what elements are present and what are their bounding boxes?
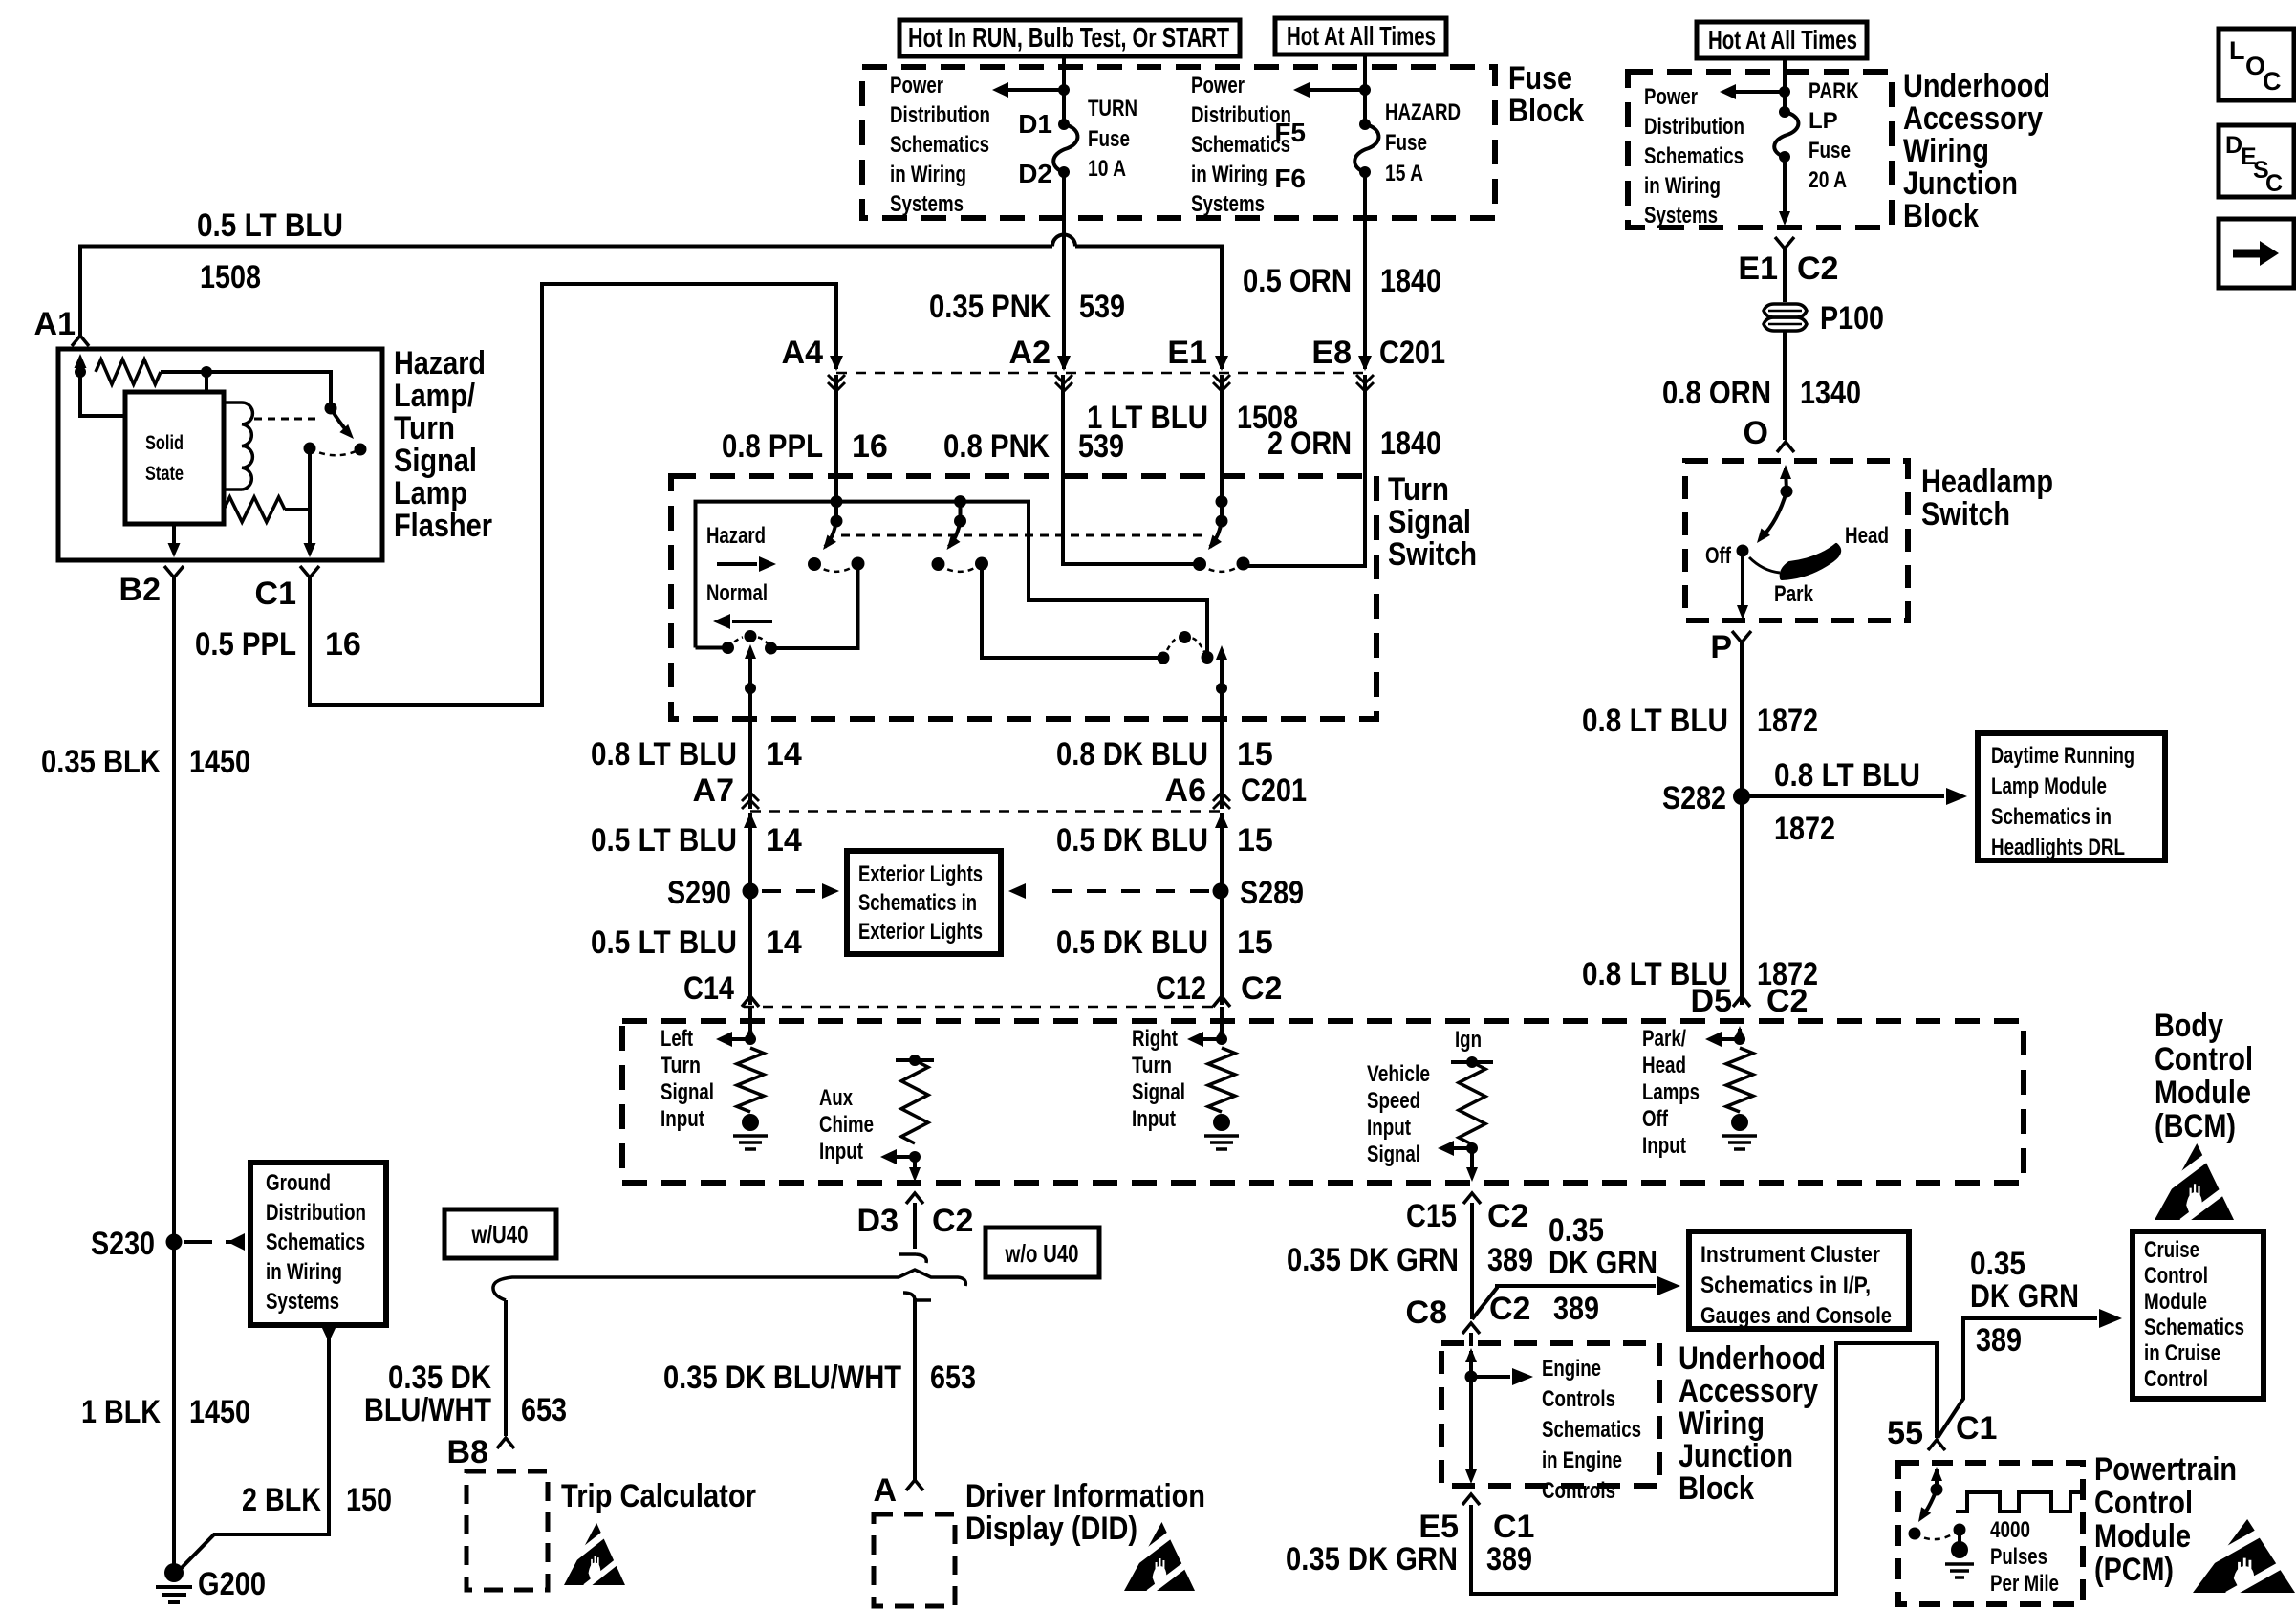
- svg-text:Control: Control: [2144, 1366, 2208, 1392]
- svg-text:S282: S282: [1662, 780, 1726, 816]
- splice option hook lower: [903, 1293, 931, 1300]
- vsis left arrow: [1438, 1141, 1472, 1156]
- wire C12 into BCM: [1220, 1007, 1224, 1037]
- branch to cruise: [1938, 1318, 2097, 1438]
- svg-text:1 LT BLU: 1 LT BLU: [1087, 400, 1208, 436]
- svg-text:0.5 DK BLU: 0.5 DK BLU: [1056, 925, 1208, 961]
- cruise box: [2133, 1231, 2264, 1399]
- svg-text:0.5 LT BLU: 0.5 LT BLU: [197, 207, 343, 244]
- svg-text:1450: 1450: [189, 744, 250, 780]
- svg-text:P: P: [1710, 629, 1732, 665]
- wire A4 to switch rail: [834, 375, 838, 502]
- svg-text:1840: 1840: [1380, 263, 1441, 299]
- svg-text:Hot At All Times: Hot At All Times: [1708, 25, 1857, 54]
- svg-text:Turn: Turn: [661, 1053, 701, 1078]
- svg-text:Controls: Controls: [1542, 1478, 1615, 1504]
- w/U40 box: [444, 1209, 556, 1258]
- turn signal switch dashed box: [671, 476, 1376, 719]
- switch pole 3 (hazard right): [1193, 495, 1250, 572]
- svg-text:LP: LP: [1809, 108, 1838, 134]
- wire to solid state left: [80, 372, 125, 416]
- svg-text:Schematics: Schematics: [1644, 143, 1744, 169]
- svg-text:539: 539: [1079, 289, 1125, 325]
- svg-text:E5: E5: [1419, 1509, 1459, 1545]
- svg-text:w/U40: w/U40: [471, 1220, 529, 1249]
- banner Hot At All Times box (fuse block): [1275, 18, 1446, 54]
- flasher coil: [224, 402, 242, 490]
- wire 2 BLK 150: [174, 1326, 336, 1576]
- flasher junction mid: [201, 366, 212, 378]
- svg-text:16: 16: [325, 626, 361, 663]
- banner Hot At All Times box (junction block): [1697, 22, 1867, 58]
- svg-text:Chime: Chime: [819, 1112, 874, 1138]
- svg-text:C2: C2: [1489, 1291, 1530, 1327]
- svg-text:D1: D1: [1018, 109, 1052, 139]
- svg-text:Schematics: Schematics: [266, 1229, 365, 1255]
- vsis down arrow: [1466, 1148, 1478, 1182]
- svg-text:Distribution: Distribution: [1644, 114, 1744, 140]
- splice S290: [743, 883, 759, 900]
- branch to instrument cluster: [1472, 1276, 1680, 1319]
- wire flasher C1 branch lower: [304, 510, 316, 557]
- svg-text:Head: Head: [1845, 523, 1889, 549]
- junction on A6 wire: [1216, 683, 1227, 694]
- svg-text:2 ORN: 2 ORN: [1267, 425, 1352, 462]
- svg-text:0.8 LT BLU: 0.8 LT BLU: [1582, 703, 1728, 739]
- ground park head: [1722, 1114, 1757, 1149]
- svg-text:1 BLK: 1 BLK: [81, 1394, 161, 1430]
- svg-text:Module: Module: [2144, 1289, 2207, 1315]
- wire 0.35 DK BLU/WHT 653 to Trip: [504, 1300, 508, 1436]
- right turn input resistor: [1208, 1048, 1235, 1112]
- svg-text:0.5 LT BLU: 0.5 LT BLU: [591, 822, 737, 859]
- svg-text:0.35 PNK: 0.35 PNK: [929, 289, 1051, 325]
- svg-text:Fuse: Fuse: [1088, 126, 1130, 152]
- svg-text:1872: 1872: [1757, 703, 1818, 739]
- fuse block dashed box: [862, 67, 1495, 218]
- connector 55/C1: [1928, 1440, 1945, 1450]
- svg-text:Accessory: Accessory: [1903, 100, 2043, 137]
- svg-text:G200: G200: [198, 1566, 266, 1602]
- svg-text:B2: B2: [119, 572, 161, 608]
- right turn input arrow: [1216, 1026, 1227, 1040]
- UAWJB2 dashed box: [1441, 1343, 1659, 1486]
- park head junction: [1734, 1033, 1745, 1045]
- svg-text:0.8 DK BLU: 0.8 DK BLU: [1056, 736, 1208, 772]
- wire 0.35 BLK / 1 BLK 1450: [172, 577, 176, 1576]
- wire 2 ORN to switch3 right contact: [1243, 375, 1365, 566]
- svg-text:0.5 ORN: 0.5 ORN: [1243, 263, 1352, 299]
- ground left turn: [733, 1114, 768, 1149]
- svg-text:Hazard: Hazard: [394, 345, 486, 381]
- connector A7: [742, 793, 759, 828]
- svg-text:DK GRN: DK GRN: [1549, 1245, 1657, 1281]
- svg-text:C14: C14: [683, 970, 734, 1007]
- arrow to power distribution: [992, 82, 1064, 98]
- splice S230: [166, 1234, 183, 1251]
- svg-text:Control: Control: [2094, 1485, 2193, 1521]
- svg-text:in Wiring: in Wiring: [1644, 173, 1721, 199]
- wire hot to junction block: [1783, 58, 1787, 72]
- svg-text:Distribution: Distribution: [266, 1200, 366, 1226]
- svg-text:Lamps: Lamps: [1642, 1079, 1700, 1105]
- ground right turn: [1204, 1114, 1239, 1149]
- wire switch2 right contact to right common: [982, 564, 1163, 659]
- svg-text:in Cruise: in Cruise: [2144, 1340, 2220, 1366]
- svg-text:D3: D3: [857, 1203, 899, 1239]
- svg-text:Exterior Lights: Exterior Lights: [858, 861, 983, 887]
- svg-text:Gauges and Console: Gauges and Console: [1700, 1303, 1892, 1329]
- svg-text:C: C: [2263, 67, 2282, 96]
- svg-text:C201: C201: [1241, 772, 1307, 809]
- fuse HAZARD 15A: [1354, 119, 1378, 178]
- wire Off to P: [1737, 551, 1748, 620]
- svg-text:Daytime Running: Daytime Running: [1991, 743, 2134, 769]
- BCM dashed box: [622, 1021, 2024, 1183]
- wire flasher C1 branch upper: [308, 448, 312, 510]
- wire hop over TURN wire: [1052, 235, 1075, 247]
- svg-text:10 A: 10 A: [1088, 156, 1126, 182]
- svg-text:15: 15: [1237, 925, 1273, 961]
- pcm switch arm: [1918, 1490, 1937, 1522]
- flasher dashed link: [254, 418, 321, 421]
- svg-text:Head: Head: [1642, 1053, 1686, 1078]
- svg-text:S289: S289: [1240, 875, 1304, 911]
- svg-text:Signal: Signal: [394, 443, 477, 479]
- left common right contact: [765, 642, 777, 655]
- svg-text:Signal: Signal: [1367, 1142, 1420, 1167]
- svg-text:Input: Input: [1367, 1115, 1411, 1141]
- svg-text:15: 15: [1237, 822, 1273, 859]
- svg-text:Accessory: Accessory: [1679, 1373, 1818, 1409]
- svg-text:Solid: Solid: [145, 432, 184, 454]
- svg-text:C2: C2: [932, 1203, 973, 1239]
- svg-text:E1: E1: [1738, 250, 1778, 287]
- aux chime down arrow: [909, 1157, 921, 1182]
- wire 0.5 PPL 16 routing: [310, 284, 836, 705]
- wire C8 to junction block 2: [1469, 1333, 1473, 1346]
- headlamp switch dashed box: [1685, 461, 1908, 620]
- svg-text:Power: Power: [890, 73, 943, 98]
- svg-text:Schematics in: Schematics in: [1991, 804, 2112, 830]
- svg-text:Fuse: Fuse: [1385, 130, 1427, 156]
- svg-text:in Engine: in Engine: [1542, 1447, 1622, 1473]
- svg-text:389: 389: [1553, 1291, 1599, 1327]
- wire 0.5 ORN 1840: [1363, 172, 1367, 369]
- aux chime resistor: [901, 1060, 928, 1143]
- vsis junction bottom: [1466, 1142, 1478, 1154]
- flasher resistor R2: [224, 497, 285, 522]
- connector E8: [1356, 356, 1374, 391]
- svg-text:C1: C1: [1493, 1509, 1534, 1545]
- svg-text:Headlamp: Headlamp: [1921, 464, 2053, 500]
- svg-text:Instrument Cluster: Instrument Cluster: [1700, 1242, 1880, 1268]
- svg-text:14: 14: [766, 925, 802, 961]
- connector C12: [1213, 996, 1230, 1007]
- svg-text:Schematics: Schematics: [2144, 1315, 2244, 1340]
- square wave symbol: [1956, 1492, 2082, 1512]
- svg-text:Input: Input: [1132, 1106, 1176, 1132]
- wire inside junction block: [1783, 72, 1787, 112]
- headlamp switch arm: [1780, 465, 1791, 491]
- svg-text:Flasher: Flasher: [394, 508, 492, 544]
- svg-text:Speed: Speed: [1367, 1088, 1420, 1114]
- wire D3 down: [913, 1203, 917, 1249]
- svg-text:4000: 4000: [1990, 1517, 2030, 1543]
- pcm ground stub: [1958, 1530, 1961, 1543]
- splice option hook upper: [899, 1254, 926, 1263]
- svg-text:Signal: Signal: [1132, 1079, 1185, 1105]
- svg-text:Turn: Turn: [1132, 1053, 1172, 1078]
- wire TURN fuse to hop: [1062, 172, 1066, 241]
- svg-text:Driver Information: Driver Information: [965, 1478, 1205, 1514]
- connector A1: [72, 336, 89, 346]
- wire to P100: [1783, 249, 1787, 302]
- svg-text:Junction: Junction: [1903, 165, 2018, 202]
- svg-text:F6: F6: [1274, 163, 1306, 193]
- svg-text:Controls: Controls: [1542, 1386, 1615, 1412]
- splice S289: [1213, 883, 1229, 900]
- svg-text:TURN: TURN: [1088, 96, 1137, 121]
- connector E5: [1462, 1494, 1480, 1505]
- right turn junction: [1216, 1033, 1227, 1045]
- svg-text:O: O: [1744, 415, 1768, 451]
- svg-text:Turn: Turn: [1388, 471, 1449, 508]
- svg-text:15: 15: [1237, 736, 1273, 772]
- svg-text:F5: F5: [1274, 118, 1306, 147]
- connector B8: [497, 1438, 514, 1448]
- connector line C201: [836, 372, 1369, 375]
- svg-text:1840: 1840: [1380, 425, 1441, 462]
- svg-text:Off: Off: [1642, 1106, 1669, 1132]
- svg-text:Fuse: Fuse: [1809, 138, 1851, 163]
- connector A6: [1213, 793, 1230, 828]
- svg-text:Lamp: Lamp: [394, 475, 467, 511]
- switch common rail: [696, 502, 1208, 658]
- svg-text:D5: D5: [1691, 983, 1732, 1019]
- fuse TURN 10A: [1053, 119, 1077, 178]
- svg-text:Wiring: Wiring: [1903, 133, 1989, 169]
- park head resistor: [1726, 1048, 1753, 1112]
- left turn input arrow: [745, 1026, 756, 1040]
- right common left contact: [1158, 652, 1170, 664]
- svg-text:389: 389: [1976, 1322, 2022, 1359]
- trip calculator dashed box: [466, 1471, 548, 1590]
- svg-text:20 A: 20 A: [1809, 167, 1847, 193]
- svg-text:653: 653: [521, 1392, 567, 1428]
- svg-text:Engine: Engine: [1542, 1356, 1601, 1382]
- headlamp switch Off contact: [1737, 545, 1749, 557]
- left common apex: [745, 630, 757, 642]
- vsis tbar: [1451, 1060, 1493, 1064]
- connector E1/C2: [1775, 237, 1794, 249]
- splice S282: [1733, 788, 1750, 805]
- ground G200: [156, 1563, 192, 1602]
- right common apex: [1179, 631, 1191, 643]
- PCM dashed box: [1898, 1463, 2083, 1604]
- svg-text:Signal: Signal: [661, 1079, 714, 1105]
- svg-text:Hot At All Times: Hot At All Times: [1287, 21, 1436, 51]
- svg-text:Schematics: Schematics: [890, 132, 989, 158]
- svg-text:in Wiring: in Wiring: [266, 1259, 342, 1285]
- svg-text:A1: A1: [34, 306, 76, 342]
- svg-text:Turn: Turn: [394, 410, 455, 446]
- svg-text:0.35 DK GRN: 0.35 DK GRN: [1287, 1242, 1459, 1278]
- wire 0.35 DK GRN 389: [1470, 1203, 1474, 1319]
- wire 0.8 LT BLU 14: [748, 719, 752, 809]
- svg-text:DK GRN: DK GRN: [1970, 1278, 2079, 1315]
- svg-text:Block: Block: [1679, 1470, 1754, 1507]
- hazard arrow: [717, 556, 776, 572]
- PCM switch pivot: [1931, 1484, 1943, 1496]
- svg-text:Module: Module: [2094, 1518, 2191, 1555]
- svg-text:State: State: [145, 463, 184, 485]
- svg-text:0.35 DK GRN: 0.35 DK GRN: [1286, 1541, 1458, 1577]
- svg-text:0.8 LT BLU: 0.8 LT BLU: [591, 736, 737, 772]
- ESD symbol BCM: [2155, 1143, 2234, 1222]
- PCM switch contact left: [1909, 1528, 1921, 1540]
- svg-text:C2: C2: [1797, 250, 1838, 287]
- svg-text:653: 653: [930, 1360, 976, 1396]
- wire 0.8 LT BLU 1872: [1740, 642, 1744, 1005]
- svg-text:w/o U40: w/o U40: [1005, 1239, 1079, 1268]
- svg-text:C1: C1: [1956, 1410, 1997, 1447]
- svg-text:Park: Park: [1774, 581, 1814, 607]
- fuse PARK LP 20A: [1774, 106, 1798, 163]
- wire 0.5 LT BLU 14 lower: [748, 813, 752, 1005]
- flasher switch contact left: [304, 443, 316, 455]
- wire from Hot In RUN to TURN fuse: [1062, 54, 1066, 124]
- engine controls junction: [1465, 1371, 1478, 1383]
- svg-text:Park/: Park/: [1642, 1026, 1686, 1052]
- svg-text:Input: Input: [819, 1139, 863, 1164]
- svg-text:0.8 PPL: 0.8 PPL: [722, 428, 823, 465]
- pcm up arrow: [1931, 1467, 1942, 1490]
- wire 0.35 DK BLU/WHT 653 to DID: [913, 1298, 917, 1480]
- svg-text:Body: Body: [2155, 1008, 2223, 1044]
- hazard flasher box: [58, 349, 382, 560]
- svg-text:Signal: Signal: [1388, 504, 1471, 540]
- left common left contact: [722, 642, 734, 654]
- svg-text:A6: A6: [1165, 772, 1206, 809]
- arrow to power dist 3: [1720, 84, 1785, 99]
- engine controls arrow: [1471, 1368, 1533, 1385]
- svg-text:Lamp/: Lamp/: [394, 378, 475, 414]
- svg-text:0.35 DK BLU/WHT: 0.35 DK BLU/WHT: [663, 1360, 901, 1396]
- arrow box: [2219, 219, 2294, 288]
- svg-text:Off: Off: [1705, 543, 1732, 569]
- wire to flasher switch pivot: [161, 372, 331, 408]
- wire R2 to C1 branch: [285, 508, 310, 511]
- dashed arrow S230 to ground dist box: [184, 1233, 245, 1251]
- svg-text:Aux: Aux: [819, 1085, 854, 1111]
- connector B2: [164, 566, 184, 577]
- svg-text:Ign: Ign: [1455, 1027, 1482, 1053]
- svg-text:(BCM): (BCM): [2155, 1108, 2236, 1144]
- wire 0.5 LT BLU 1508 from flasher A1 to E1: [80, 247, 1052, 337]
- svg-text:150: 150: [346, 1482, 392, 1518]
- DRL box: [1978, 733, 2165, 860]
- connector line A7/A6 C201: [750, 810, 1222, 813]
- svg-text:Block: Block: [1903, 198, 1979, 234]
- svg-text:1450: 1450: [189, 1394, 250, 1430]
- svg-text:HAZARD: HAZARD: [1385, 99, 1461, 125]
- svg-text:Per Mile: Per Mile: [1990, 1571, 2059, 1597]
- flasher switch contact right: [355, 444, 367, 456]
- wire C14 into BCM: [748, 1007, 752, 1037]
- ESD symbol PCM: [2193, 1519, 2295, 1595]
- svg-text:55: 55: [1887, 1415, 1923, 1451]
- svg-text:Switch: Switch: [1388, 536, 1477, 573]
- exterior lights box: [847, 851, 1001, 954]
- mechanical link dashed: [841, 534, 1206, 537]
- junction on A7 wire: [745, 683, 756, 694]
- svg-text:14: 14: [766, 822, 802, 859]
- svg-text:C2: C2: [1241, 970, 1282, 1007]
- svg-text:15 A: 15 A: [1385, 161, 1423, 186]
- connector C15: [1463, 1193, 1481, 1204]
- DID dashed box: [874, 1514, 955, 1606]
- flasher resistor R1: [96, 359, 161, 384]
- wire to box bottom: [1779, 157, 1790, 226]
- solid state box: [125, 392, 224, 524]
- connector A: [906, 1480, 923, 1490]
- svg-text:C2: C2: [1487, 1198, 1528, 1234]
- svg-text:Control: Control: [2155, 1041, 2253, 1077]
- svg-text:E1: E1: [1167, 335, 1207, 371]
- connector A4: [828, 356, 845, 391]
- svg-text:P100: P100: [1820, 300, 1884, 337]
- connector O: [1777, 442, 1794, 452]
- svg-text:L: L: [2229, 36, 2245, 65]
- svg-text:Powertrain: Powertrain: [2094, 1451, 2237, 1488]
- connector D3: [906, 1193, 923, 1204]
- svg-text:C1: C1: [255, 576, 296, 612]
- switch pole 1 (hazard feed): [808, 495, 865, 572]
- svg-text:14: 14: [766, 736, 802, 772]
- svg-text:0.35 DK: 0.35 DK: [388, 1360, 491, 1396]
- svg-text:Right: Right: [1132, 1026, 1178, 1052]
- svg-text:0.5 DK BLU: 0.5 DK BLU: [1056, 822, 1208, 859]
- left turn junction: [745, 1033, 756, 1045]
- svg-text:Input: Input: [661, 1106, 704, 1132]
- connector A2: [1055, 356, 1072, 391]
- svg-text:1340: 1340: [1800, 375, 1861, 411]
- svg-text:Schematics in: Schematics in: [858, 890, 977, 916]
- wire 0.5 DK BLU 15 lower: [1220, 813, 1224, 1005]
- ESD symbol trip calculator: [564, 1523, 625, 1587]
- svg-text:Systems: Systems: [1644, 203, 1718, 228]
- connector C1: [300, 566, 319, 577]
- svg-text:0.8 LT BLU: 0.8 LT BLU: [1774, 757, 1920, 794]
- ground distribution box: [250, 1163, 386, 1325]
- svg-text:C15: C15: [1406, 1198, 1457, 1234]
- svg-text:Power: Power: [1644, 84, 1698, 110]
- wire 0.35 DK GRN 389 to PCM: [1471, 1343, 1937, 1594]
- vsis junction top: [1466, 1056, 1478, 1068]
- svg-text:in Wiring: in Wiring: [1191, 162, 1267, 187]
- svg-text:Trip Calculator: Trip Calculator: [561, 1478, 756, 1514]
- banner Hot In RUN box: [899, 20, 1240, 56]
- svg-text:Control: Control: [2144, 1263, 2208, 1289]
- svg-text:0.35 BLK: 0.35 BLK: [41, 744, 161, 780]
- wire flasher B2 branch: [168, 524, 181, 557]
- svg-text:Schematics: Schematics: [1542, 1417, 1641, 1443]
- arrow to power distribution 2: [1293, 82, 1365, 98]
- connector E1: [1213, 356, 1230, 391]
- flasher switch pivot: [325, 402, 337, 415]
- svg-text:Pulses: Pulses: [1990, 1544, 2047, 1570]
